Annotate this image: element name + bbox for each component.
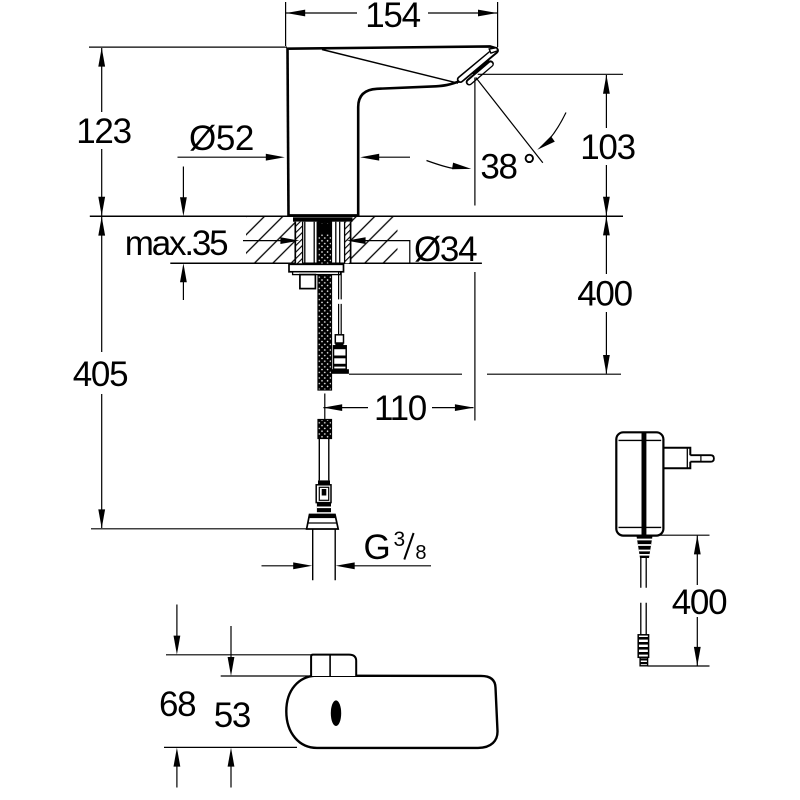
123 top reference line	[89, 46, 287, 48]
braided hose dark top	[318, 224, 332, 235]
thread zone right	[345, 222, 351, 264]
400 top reference tick	[653, 534, 710, 536]
svg-text:38: 38	[480, 148, 516, 187]
svg-text:68: 68	[159, 685, 195, 724]
154 arrow right	[478, 10, 497, 17]
countertop top line	[90, 215, 623, 217]
spout aerator strip inner black outline	[469, 64, 490, 82]
spout top end facet	[489, 48, 498, 53]
spout aerator strip outer white core	[461, 50, 496, 80]
53 dimension	[230, 626, 232, 658]
svg-text:110: 110	[374, 389, 427, 428]
103 dimension line	[605, 75, 607, 216]
svg-text:max.35: max.35	[125, 224, 227, 263]
svg-text:G: G	[364, 528, 390, 567]
fitting body	[316, 485, 331, 503]
degree symbol	[526, 155, 533, 162]
faucet left edge	[288, 48, 289, 216]
shank outer wall left	[294, 222, 296, 264]
spout aerator strip outer black outline	[460, 51, 495, 80]
154 extension line right	[497, 2, 499, 47]
countertop hatch left	[246, 217, 295, 263]
spout aerator strip inner white core	[469, 64, 490, 82]
max35 arrow top	[182, 167, 184, 199]
400 dimension line right	[696, 536, 698, 666]
O52 leader left	[178, 156, 267, 158]
154 arrow left	[286, 10, 305, 17]
sensor cable plug base	[332, 369, 349, 374]
thread zone left	[295, 222, 302, 264]
faucet top edge	[287, 46, 498, 48]
locknut flange	[289, 264, 344, 272]
top view capsule body	[286, 676, 497, 748]
405 arrow bottom	[98, 509, 105, 528]
top view reference line bottom	[164, 746, 297, 748]
spout aerator slot black blob	[471, 58, 491, 76]
O52 leader right	[379, 156, 411, 158]
O34 arrow right + leader	[365, 241, 482, 264]
countertop hatch right	[351, 217, 398, 263]
svg-text:400: 400	[577, 275, 632, 314]
G3/8 pipe	[313, 529, 336, 580]
405 dimension line	[101, 217, 103, 528]
G3/8 arrow right	[354, 565, 431, 567]
154 extension line left	[285, 2, 287, 46]
spout axis slant line	[476, 78, 543, 163]
barrel connector	[638, 635, 648, 658]
fitting window	[319, 487, 328, 500]
sensor cable plug body	[334, 346, 347, 369]
sensor cable lower	[339, 304, 342, 334]
faucet inner slant line (front edge of top face)	[322, 50, 458, 84]
power cable upper	[641, 558, 646, 588]
spout vertical extension line	[474, 78, 476, 421]
shank outer wall right	[350, 222, 352, 264]
top view lever divider	[329, 655, 331, 676]
38 arc arrow upper	[541, 113, 567, 148]
sensor cable plug socket	[335, 335, 343, 343]
fitting lower bands	[317, 503, 331, 513]
fitting upper band	[318, 480, 330, 485]
sensor cable plug collar	[335, 343, 343, 346]
38 arc arrow lower	[427, 161, 455, 169]
400 bottom reference tick	[648, 665, 710, 667]
svg-text:123: 123	[76, 112, 131, 151]
hose centerline at break	[324, 394, 326, 422]
faucet bottom edge	[289, 214, 359, 216]
405 bottom reference line	[91, 528, 307, 530]
countertop bottom line	[170, 262, 482, 264]
400 bottom reference line	[349, 373, 621, 375]
braided hose upper run	[318, 222, 332, 390]
adapter body	[616, 432, 663, 535]
locknut lip	[293, 272, 341, 275]
hex nut	[307, 515, 339, 530]
top view reference line 68	[166, 654, 311, 656]
shank inner wall lines	[302, 222, 304, 264]
svg-text:8: 8	[415, 542, 426, 564]
strain relief gland	[637, 536, 653, 558]
barrel connector tip	[640, 657, 648, 666]
svg-text:3: 3	[394, 528, 406, 551]
123 arrow top	[98, 48, 105, 67]
svg-text:Ø34: Ø34	[414, 230, 477, 269]
svg-text:53: 53	[214, 696, 250, 735]
svg-text:400: 400	[672, 583, 727, 622]
sensor cable upper	[339, 272, 342, 299]
svg-text:154: 154	[365, 0, 420, 35]
plug pin	[690, 455, 714, 462]
154 dimension line	[286, 12, 497, 14]
123 arrow bottom	[98, 197, 105, 216]
smooth hose section	[319, 439, 329, 481]
spout outlet reference line	[478, 73, 623, 75]
top view reference line 53	[221, 675, 320, 677]
O34 arrow left	[243, 240, 281, 242]
G3/8 arrow left	[262, 565, 295, 567]
adapter inner bottom line	[619, 526, 662, 528]
spout underside and right pillar edge	[358, 81, 459, 215]
power cable lower	[641, 603, 646, 635]
base seal bar	[293, 217, 353, 221]
fitting window slot	[322, 489, 327, 496]
adapter center bar	[642, 432, 647, 535]
mounting stud block	[300, 275, 316, 289]
400 dimension line	[605, 217, 607, 374]
braided hose lower stub	[318, 420, 332, 439]
405 arrow top	[98, 217, 105, 236]
svg-text:Ø52: Ø52	[189, 119, 254, 158]
123 dimension line	[101, 48, 103, 216]
sensor window dot	[331, 700, 341, 726]
svg-text:103: 103	[580, 128, 635, 167]
68 dimension	[176, 605, 178, 637]
svg-text:405: 405	[73, 355, 128, 394]
max35 arrow bottom	[182, 282, 184, 300]
plug block	[663, 448, 690, 468]
adapter inner top line	[619, 439, 662, 441]
top view lever	[311, 655, 356, 676]
